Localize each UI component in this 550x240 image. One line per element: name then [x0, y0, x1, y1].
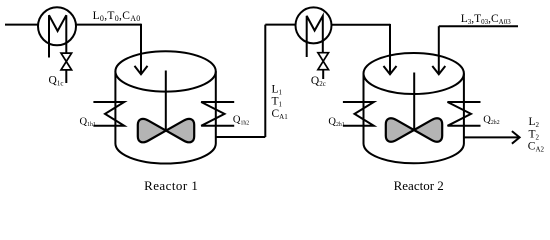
wire inlet drop 2 into reactor 2 with arrow — [438, 26, 440, 73]
reactor R1 agitator shaft — [165, 71, 167, 131]
wire from E1 to reactor 1 inlet corner — [76, 24, 141, 26]
svg-text:Reactor 1: Reactor 1 — [144, 178, 198, 193]
svg-text:Reactor 2: Reactor 2 — [394, 178, 444, 193]
heat exchanger E1 circle — [38, 7, 76, 45]
reactor R2 top ellipse — [364, 53, 464, 94]
heat exchanger E2 internal M with coolant legs — [307, 16, 323, 57]
valve Q1c body — [61, 53, 72, 70]
coil Q1h1 zigzag on left wall of R1 — [93, 102, 124, 126]
valve Q2c stem — [322, 70, 324, 79]
reactor R1 top ellipse — [115, 51, 215, 91]
coil Q2h2 zigzag on right wall of R2 — [448, 102, 481, 126]
reactor R1 vessel body — [115, 71, 215, 163]
heat exchanger E2 circle — [296, 7, 332, 43]
wire outlet of R1 — [216, 136, 265, 138]
reactor R2 agitator shaft — [413, 73, 415, 130]
coil Q2h1 zigzag on left wall of R2 — [343, 102, 374, 126]
reactor R1 impeller — [138, 119, 166, 142]
wire riser to E2 — [264, 25, 266, 137]
wire from E2 to reactor 2 inlet corner — [332, 24, 391, 26]
wire outlet of R2 with arrow — [464, 136, 519, 138]
wire riser top to E2 — [265, 24, 295, 26]
wire feed line into heat exchanger E1 — [5, 24, 38, 26]
wire inlet drop 1 into reactor 2 with arrow — [389, 24, 391, 73]
coil Q1h2 zigzag on right wall of R1 — [201, 102, 234, 126]
heat exchanger E1 internal M with coolant legs — [49, 15, 66, 57]
reactor R2 vessel body — [364, 74, 464, 164]
wire fresh feed line L3 — [439, 25, 518, 27]
valve Q2c body — [318, 53, 329, 70]
valve Q1c stem — [65, 70, 67, 83]
reactor R2 impeller — [386, 118, 414, 141]
wire inlet drop into reactor 1 with arrow — [140, 24, 142, 73]
